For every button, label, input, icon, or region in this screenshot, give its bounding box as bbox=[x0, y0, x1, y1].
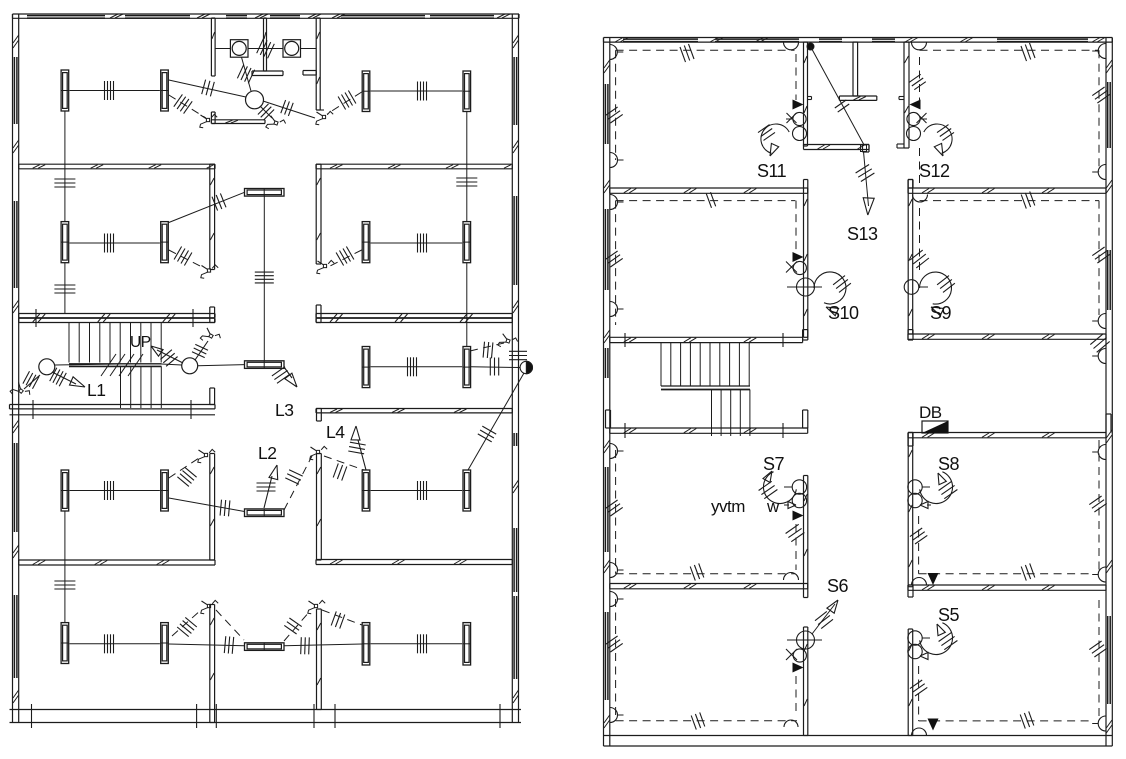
svg-text:S13: S13 bbox=[847, 224, 878, 244]
svg-text:L3: L3 bbox=[275, 400, 293, 420]
svg-text:yvtm: yvtm bbox=[711, 497, 745, 516]
svg-text:UP: UP bbox=[130, 334, 151, 351]
svg-text:S6: S6 bbox=[827, 576, 849, 596]
svg-text:S12: S12 bbox=[919, 161, 950, 181]
svg-text:L4: L4 bbox=[326, 422, 345, 442]
svg-text:S5: S5 bbox=[938, 605, 960, 625]
svg-text:L2: L2 bbox=[258, 443, 276, 463]
svg-text:w: w bbox=[766, 497, 780, 516]
svg-text:DB: DB bbox=[919, 403, 942, 422]
svg-text:S11: S11 bbox=[757, 161, 787, 181]
svg-text:S7: S7 bbox=[763, 454, 785, 474]
svg-text:S9: S9 bbox=[930, 303, 952, 323]
svg-text:S10: S10 bbox=[828, 303, 859, 323]
svg-text:S8: S8 bbox=[938, 454, 960, 474]
svg-text:L1: L1 bbox=[87, 380, 105, 400]
